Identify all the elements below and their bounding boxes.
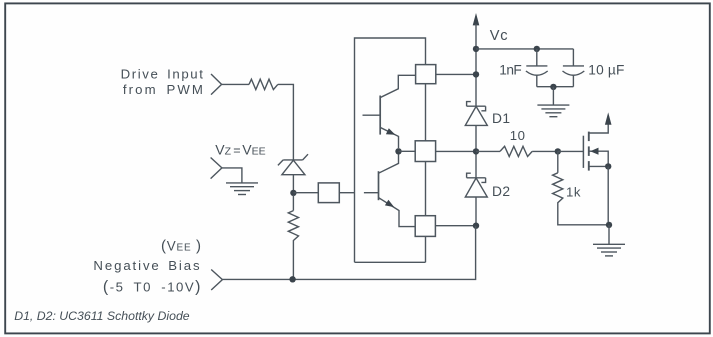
svg-text:1nF: 1nF — [499, 63, 521, 78]
pin square (bottom, Vee pin) — [415, 216, 435, 237]
wire: R1 to zener node — [278, 84, 294, 159]
node B: totem output junction dot — [395, 148, 401, 154]
svg-text:10 µF: 10 µF — [588, 63, 624, 78]
wire: caps to ground — [552, 87, 554, 105]
wire: box to driver block pin — [339, 192, 354, 194]
label D2 — [492, 184, 510, 199]
label 1k — [566, 185, 581, 200]
node J: rail dot at R2 — [289, 276, 295, 282]
svg-text:(-5 T0 -10V): (-5 T0 -10V) — [103, 279, 202, 296]
wire: output node to R3 — [476, 150, 500, 152]
pin square (middle, output pin) — [415, 141, 435, 162]
wire: gate node down to R4 — [557, 151, 559, 172]
pin square (top, Vc pin) — [416, 65, 436, 84]
wire: bottom pin to Vee node — [435, 225, 476, 227]
label 10 — [510, 128, 526, 143]
ground (MOSFET source) — [593, 244, 625, 256]
svg-text:Negative Bias: Negative Bias — [93, 258, 201, 273]
wire: ground stem — [608, 225, 610, 244]
input arrow (drive input) — [211, 74, 222, 95]
wire: R3 to gate node — [532, 150, 558, 152]
node C: Vc cap branch dot — [473, 46, 479, 52]
input arrow (Vz reference) — [211, 158, 222, 179]
resistor R1 (series input) — [249, 79, 278, 89]
wire: gate node to MOSFET gate — [558, 150, 584, 152]
resistor R4 1k (gate pulldown) — [553, 173, 563, 206]
svg-text:Vc: Vc — [490, 28, 509, 44]
capacitor C2 10uF — [563, 49, 585, 87]
wire: D2 anode to Vee node — [475, 197, 477, 226]
svg-text:10: 10 — [510, 128, 526, 143]
node E: output node dot — [473, 148, 479, 154]
wire: negative bias rail — [222, 226, 475, 280]
svg-text:D1, D2: UC3611 Schottky Diode: D1, D2: UC3611 Schottky Diode — [14, 309, 190, 323]
node G: gate node dot — [555, 148, 561, 154]
label Vc — [490, 28, 509, 44]
wire: top pin to Vc rail — [436, 73, 476, 75]
node A: zener junction dot — [290, 190, 296, 196]
svg-text:from PWM: from PWM — [123, 82, 205, 97]
label 1nF — [499, 63, 521, 78]
Vc supply arrow — [473, 13, 480, 106]
label 10uF — [588, 63, 624, 78]
svg-text:D2: D2 — [492, 184, 510, 199]
node: Drive Input from PWM label — [121, 66, 205, 97]
node: caps ground dot — [550, 84, 556, 90]
driver block U1 outline — [355, 38, 426, 262]
resistor R2 (bias, vertical) — [288, 211, 298, 243]
wire: input to R1 — [222, 83, 249, 85]
wire: node A to level-shift box — [293, 192, 318, 194]
wire: caps bottom bus — [537, 86, 574, 88]
drain supply arrow — [605, 112, 612, 124]
node: cap C1 top dot — [534, 46, 540, 52]
transistor Q1 (upper NPN) — [363, 75, 416, 148]
wire: node B to middle pin square — [399, 150, 416, 152]
svg-text:Drive Input: Drive Input — [121, 66, 205, 81]
transistor Q2 (lower NPN) — [364, 155, 415, 227]
wire: node A down to R2 — [292, 195, 294, 211]
wire: source down to ground node — [607, 166, 609, 224]
node I: source ground dot — [606, 222, 612, 228]
wire: Vz arrow to ground — [222, 168, 242, 183]
label Vz = Vee — [215, 141, 265, 157]
node H: source/body dot — [605, 163, 611, 169]
zener diode VZ — [278, 154, 308, 190]
node D: Vc pin dot — [473, 71, 479, 77]
label (Vee) Negative Bias — [93, 238, 202, 296]
wire: middle pin to output node — [436, 150, 476, 152]
transistor Q3 (power MOSFET) — [583, 123, 608, 171]
wire: D1 anode to output node — [475, 125, 477, 177]
wire: Vc rail to caps — [476, 48, 573, 50]
input arrow (negative bias) — [211, 270, 222, 291]
node F: Vee node dot — [473, 223, 479, 229]
diode D2 (schottky clamp to Vee) — [465, 173, 487, 197]
label D1 — [492, 111, 510, 126]
level-shift box (input stage) — [318, 183, 339, 203]
wire: R4 to source/ground rail — [558, 206, 609, 225]
svg-text:1k: 1k — [566, 185, 581, 200]
capacitor C1 1nF — [526, 49, 548, 87]
wire: R2 to negative rail — [292, 243, 294, 279]
diode D1 (schottky clamp to Vc) — [465, 102, 487, 126]
resistor R3 10 (gate) — [500, 146, 532, 156]
ground (decoupling caps) — [537, 105, 569, 117]
svg-text:D1: D1 — [492, 111, 510, 126]
ground (Vz reference) — [226, 183, 258, 195]
note: D1 D2 schottky — [14, 309, 190, 323]
